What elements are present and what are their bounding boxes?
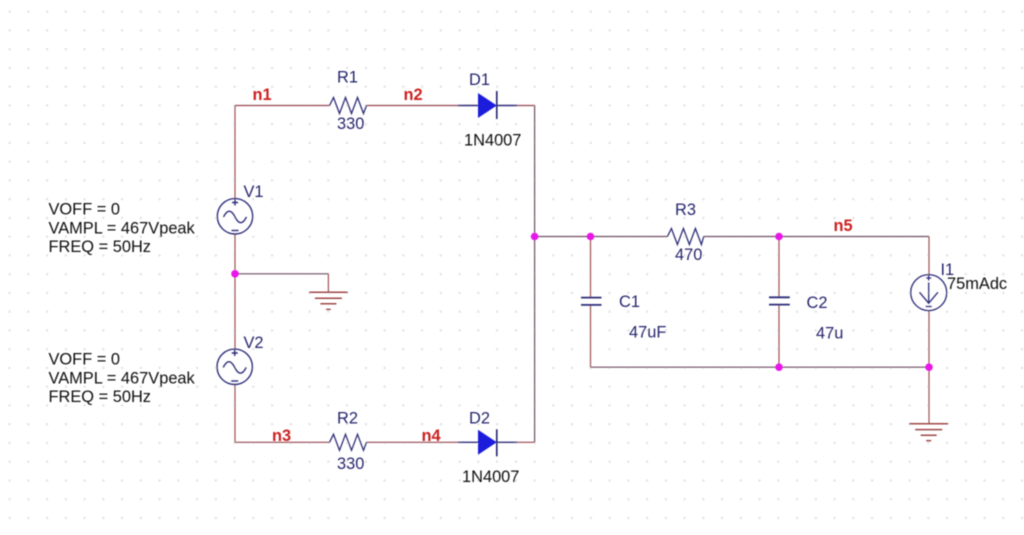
- svg-text:I1: I1: [941, 261, 955, 279]
- svg-text:VOFF = 0: VOFF = 0: [49, 201, 121, 219]
- svg-text:C1: C1: [619, 293, 640, 311]
- svg-text:D1: D1: [469, 71, 490, 89]
- svg-text:n3: n3: [272, 427, 291, 445]
- svg-text:470: 470: [675, 246, 702, 264]
- svg-text:FREQ = 50Hz: FREQ = 50Hz: [49, 388, 151, 406]
- svg-text:n1: n1: [253, 86, 272, 104]
- svg-text:330: 330: [337, 455, 364, 473]
- svg-text:n2: n2: [404, 86, 423, 104]
- svg-text:75mAdc: 75mAdc: [947, 275, 1007, 293]
- svg-text:FREQ = 50Hz: FREQ = 50Hz: [49, 238, 151, 256]
- svg-text:R2: R2: [337, 409, 358, 427]
- svg-text:V2: V2: [244, 334, 264, 352]
- svg-text:1N4007: 1N4007: [462, 468, 519, 486]
- svg-text:n5: n5: [834, 217, 853, 235]
- svg-text:R3: R3: [675, 201, 696, 219]
- svg-text:VAMPL = 467Vpeak: VAMPL = 467Vpeak: [49, 219, 196, 237]
- svg-text:VAMPL = 467Vpeak: VAMPL = 467Vpeak: [49, 369, 196, 387]
- svg-text:VOFF = 0: VOFF = 0: [49, 351, 121, 369]
- svg-text:D2: D2: [469, 409, 490, 427]
- svg-text:330: 330: [337, 115, 364, 133]
- svg-text:47uF: 47uF: [629, 324, 666, 342]
- svg-text:V1: V1: [244, 183, 264, 201]
- svg-text:C2: C2: [807, 294, 828, 312]
- svg-text:1N4007: 1N4007: [464, 132, 521, 150]
- svg-text:n4: n4: [422, 427, 442, 445]
- svg-text:47u: 47u: [816, 324, 843, 342]
- svg-text:R1: R1: [337, 69, 358, 87]
